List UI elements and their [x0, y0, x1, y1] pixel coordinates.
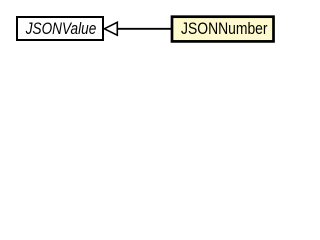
class box JSONNumber (highlighted subclass) [172, 17, 274, 42]
svg-text:JSONValue: JSONValue [25, 20, 96, 38]
wire (inheritance line from JSONNumber to arrowhead) [117, 28, 171, 30]
inheritance arrowhead (hollow triangle pointing at JSONValue) [104, 22, 117, 35]
svg-text:JSONNumber: JSONNumber [181, 20, 268, 38]
class box JSONValue (abstract superclass) [17, 17, 103, 40]
